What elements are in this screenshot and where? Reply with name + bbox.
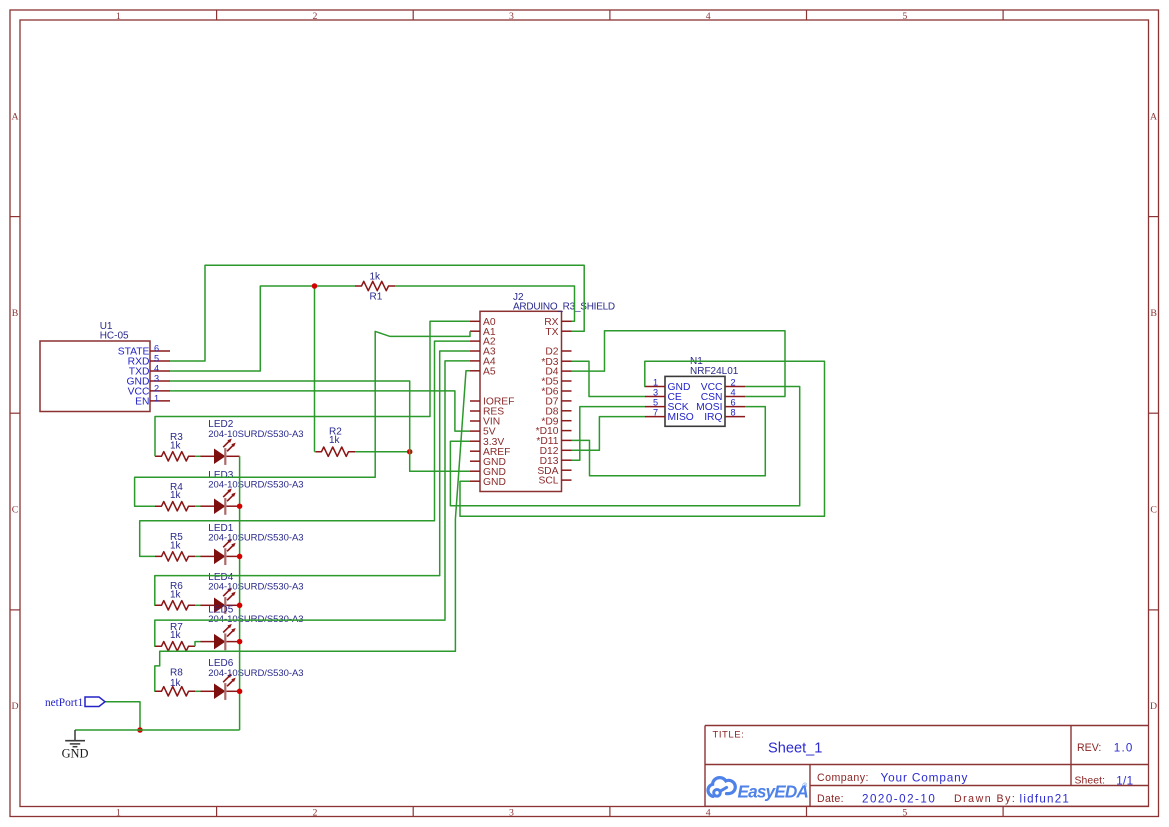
svg-text:7: 7 — [653, 408, 658, 418]
svg-text:2: 2 — [312, 807, 317, 818]
svg-text:8: 8 — [730, 408, 735, 418]
title value Sheet_1 — [768, 740, 822, 756]
wire J2 GND to N1 GND — [460, 361, 825, 516]
LED LED2 204-10SURD/S530-A3 — [200, 419, 303, 465]
svg-text:2: 2 — [312, 11, 317, 22]
svg-text:TX: TX — [545, 327, 558, 338]
J2 left pin A1 — [470, 327, 496, 338]
N1 pin 4 CSN — [701, 388, 745, 404]
J2 right pin *D6 — [541, 387, 571, 398]
svg-text:A: A — [1150, 111, 1157, 122]
svg-text:1: 1 — [116, 807, 121, 818]
resistor R5 1k — [155, 532, 195, 561]
svg-text:SCL: SCL — [538, 476, 558, 487]
svg-text:5: 5 — [653, 398, 658, 408]
svg-text:2: 2 — [730, 378, 735, 388]
svg-text:®: ® — [803, 783, 808, 790]
wire U1 TXD to R1 left (node TXD) — [170, 286, 355, 371]
svg-text:Company:: Company: — [817, 772, 869, 784]
resistor R7 1k — [155, 622, 195, 651]
svg-text:REV:: REV: — [1077, 742, 1101, 754]
LED LED5 204-10SURD/S530-A3 — [200, 604, 303, 650]
wire J2 A2 to R5/LED1 — [140, 341, 470, 556]
U1 pin 6 STATE — [118, 344, 170, 358]
junction LED1 cathode — [237, 554, 243, 560]
J2 left pin A0 — [470, 317, 496, 328]
svg-text:Sheet:: Sheet: — [1075, 776, 1106, 787]
svg-text:204-10SURD/S530-A3: 204-10SURD/S530-A3 — [208, 533, 303, 544]
J2 left pin 5V — [470, 427, 496, 438]
U1 pin 1 EN — [135, 393, 170, 407]
svg-text:MISO: MISO — [668, 412, 694, 423]
svg-text:1k: 1k — [170, 630, 182, 641]
J2 right pin *D3 — [541, 357, 571, 368]
N1 pin 1 GND — [645, 378, 690, 394]
svg-text:3: 3 — [509, 11, 514, 22]
J2 right pin SDA — [537, 466, 571, 477]
svg-text:C: C — [1150, 505, 1157, 516]
svg-text:1.0: 1.0 — [1114, 742, 1134, 755]
J2 right pin D12 — [540, 446, 572, 457]
wire J2 A1 to R4/LED3 — [135, 331, 470, 506]
svg-text:204-10SURD/S530-A3: 204-10SURD/S530-A3 — [208, 668, 303, 679]
resistor R2 1k — [315, 426, 355, 456]
wire R2 right to GND net — [355, 451, 410, 453]
J2 right pin D13 — [540, 456, 572, 467]
svg-text:1k: 1k — [170, 490, 182, 501]
J2 right pin TX — [545, 327, 571, 338]
svg-text:netPort1: netPort1 — [45, 697, 83, 709]
J2 left pin VIN — [470, 417, 500, 428]
wire J2 D13 to N1 SCK — [572, 407, 646, 461]
LED LED3 204-10SURD/S530-A3 — [200, 470, 303, 515]
J2 left pin GND — [470, 467, 506, 478]
svg-text:6: 6 — [154, 344, 159, 354]
J2 right pin *D11 — [536, 436, 571, 447]
title block — [705, 726, 1149, 807]
junction LED3 cathode — [237, 503, 243, 509]
J2 left pin A2 — [470, 337, 496, 348]
Company row — [817, 770, 968, 784]
svg-text:1k: 1k — [370, 271, 382, 282]
svg-text:3: 3 — [509, 807, 514, 818]
svg-text:3: 3 — [154, 374, 159, 384]
N1 pin 7 MISO — [645, 408, 694, 424]
svg-text:B: B — [1150, 308, 1157, 319]
svg-text:2: 2 — [154, 383, 159, 393]
LED LED4 204-10SURD/S530-A3 — [200, 572, 303, 614]
ground symbol GND — [62, 730, 89, 761]
svg-text:5: 5 — [902, 11, 907, 22]
wire U1 GND to J2 GND — [170, 381, 470, 471]
wire J2 A5 to R8/LED6 — [155, 371, 470, 692]
LED LED1 204-10SURD/S530-A3 — [200, 523, 303, 565]
N1 pin 6 MOSI — [696, 398, 745, 414]
svg-text:NRF24L01: NRF24L01 — [690, 366, 739, 377]
svg-text:1: 1 — [154, 393, 159, 403]
U1 pin 3 GND — [127, 374, 170, 388]
svg-text:C: C — [12, 505, 19, 516]
J2 right pin SCL — [538, 476, 571, 487]
junction LED6 cathode — [237, 689, 243, 695]
svg-text:6: 6 — [730, 398, 735, 408]
svg-text:TITLE:: TITLE: — [713, 729, 745, 740]
resistor R6 1k — [155, 581, 195, 610]
wire J2 A4 to R7/LED5 — [155, 361, 470, 646]
Sheet label and value — [1075, 774, 1134, 787]
svg-text:1k: 1k — [329, 435, 341, 446]
svg-text:1: 1 — [653, 378, 658, 388]
J2 right pin *D5 — [541, 377, 571, 388]
svg-text:4: 4 — [706, 807, 711, 818]
svg-text:Sheet_1: Sheet_1 — [768, 740, 822, 756]
svg-text:5: 5 — [902, 807, 907, 818]
svg-text:204-10SURD/S530-A3: 204-10SURD/S530-A3 — [208, 582, 303, 593]
svg-text:A: A — [11, 111, 18, 122]
wire ground rail — [75, 729, 240, 731]
N1 pin 3 CE — [645, 388, 682, 404]
svg-text:5: 5 — [154, 354, 159, 364]
svg-text:4: 4 — [706, 11, 711, 22]
svg-text:204-10SURD/S530-A3: 204-10SURD/S530-A3 — [208, 479, 303, 490]
resistor R4 1k — [155, 482, 195, 511]
svg-text:D: D — [11, 701, 18, 712]
J2 left pin A4 — [470, 357, 496, 368]
N1 pin 2 VCC — [701, 378, 745, 394]
junction LED4 cathode — [237, 603, 243, 609]
wire J2 A3 to R6/LED4 — [155, 351, 470, 605]
wire LED cathode bus — [239, 456, 241, 730]
J2 right pin D8 — [545, 406, 571, 417]
J2 left pin GND — [470, 477, 506, 488]
svg-text:4: 4 — [154, 364, 159, 374]
net port netPort1 — [45, 697, 105, 709]
wire R1 right to J2 RX — [395, 286, 575, 321]
svg-text:lidfun21: lidfun21 — [1020, 792, 1071, 805]
component N1 NRF24L01 body — [665, 356, 739, 426]
resistor R8 1k — [155, 668, 195, 696]
J2 left pin AREF — [470, 447, 510, 458]
svg-text:EasyEDA: EasyEDA — [738, 782, 809, 802]
svg-text:1k: 1k — [170, 678, 182, 689]
junction R2/GND — [407, 449, 413, 455]
svg-text:Your Company: Your Company — [881, 770, 969, 784]
component J2 ARDUINO_R3_SHIELD body — [480, 292, 615, 492]
svg-text:1/1: 1/1 — [1116, 774, 1133, 787]
U1 pin 2 VCC — [128, 383, 170, 397]
junction netPort/ground rail — [137, 727, 143, 733]
wire R2 riser to TXD node — [315, 286, 317, 452]
svg-text:1k: 1k — [170, 440, 182, 451]
svg-text:ARDUINO_R3_SHIELD: ARDUINO_R3_SHIELD — [513, 302, 615, 313]
wire U1 VCC to J2 5V — [170, 391, 470, 431]
component U1 HC-05 body — [40, 321, 150, 412]
wire U1 RXD to J2 TX — [170, 265, 584, 361]
svg-text:GND: GND — [483, 477, 506, 488]
J2 right pin *D10 — [536, 426, 572, 437]
wire J2 D11 to N1 MOSI — [572, 407, 766, 476]
wire netPort1 to ground rail — [105, 702, 140, 730]
J2 left pin GND — [470, 457, 506, 468]
J2 right pin D7 — [545, 397, 571, 408]
svg-text:HC-05: HC-05 — [100, 330, 129, 341]
J2 left pin A3 — [470, 347, 496, 358]
J2 left pin 3.3V — [470, 437, 504, 448]
J2 left pin RES — [470, 407, 504, 418]
N1 pin 5 SCK — [645, 398, 689, 414]
svg-text:D: D — [1150, 701, 1157, 712]
J2 right pin *D9 — [541, 416, 571, 427]
wire J2 A0 to R3/LED2 — [155, 321, 470, 456]
svg-text:A5: A5 — [483, 366, 496, 377]
LED LED6 204-10SURD/S530-A3 — [200, 658, 303, 700]
svg-text:1: 1 — [116, 11, 121, 22]
svg-text:GND: GND — [62, 747, 89, 761]
junction TXD/R2 — [312, 283, 318, 289]
resistor R3 1k — [155, 432, 195, 461]
N1 pin 8 IRQ — [704, 408, 745, 424]
J2 right pin D2 — [545, 347, 571, 358]
junction LED5 cathode — [237, 639, 243, 645]
svg-text:1k: 1k — [170, 540, 182, 551]
svg-text:R8: R8 — [170, 668, 183, 679]
svg-text:IRQ: IRQ — [704, 412, 722, 423]
svg-text:1k: 1k — [170, 589, 182, 600]
svg-text:Date:: Date: — [817, 793, 844, 805]
wire J2 3.3V to N1 VCC — [450, 387, 799, 506]
svg-text:R1: R1 — [370, 292, 383, 303]
Date row — [817, 792, 1070, 805]
svg-text:3: 3 — [653, 388, 658, 398]
J2 left pin A5 — [470, 366, 496, 377]
wire J2 D3 to N1 CE — [572, 361, 646, 396]
J2 right pin RX — [544, 317, 571, 328]
resistor R1 1k — [355, 271, 395, 302]
U1 pin 4 TXD — [129, 364, 170, 378]
svg-text:Drawn By:: Drawn By: — [954, 793, 1016, 805]
wire J2 D12 to N1 MISO — [572, 417, 646, 451]
wire J2 D4 to N1 CSN — [572, 331, 786, 397]
REV label and value — [1077, 742, 1134, 755]
svg-text:2020-02-10: 2020-02-10 — [862, 792, 936, 805]
J2 right pin D4 — [545, 367, 571, 378]
J2 left pin IOREF — [470, 397, 514, 408]
svg-text:B: B — [12, 308, 19, 319]
svg-text:204-10SURD/S530-A3: 204-10SURD/S530-A3 — [208, 429, 303, 440]
U1 pin 5 RXD — [128, 354, 170, 368]
svg-text:EN: EN — [135, 397, 149, 408]
svg-text:4: 4 — [730, 388, 735, 398]
EasyEDA logo — [708, 778, 808, 802]
